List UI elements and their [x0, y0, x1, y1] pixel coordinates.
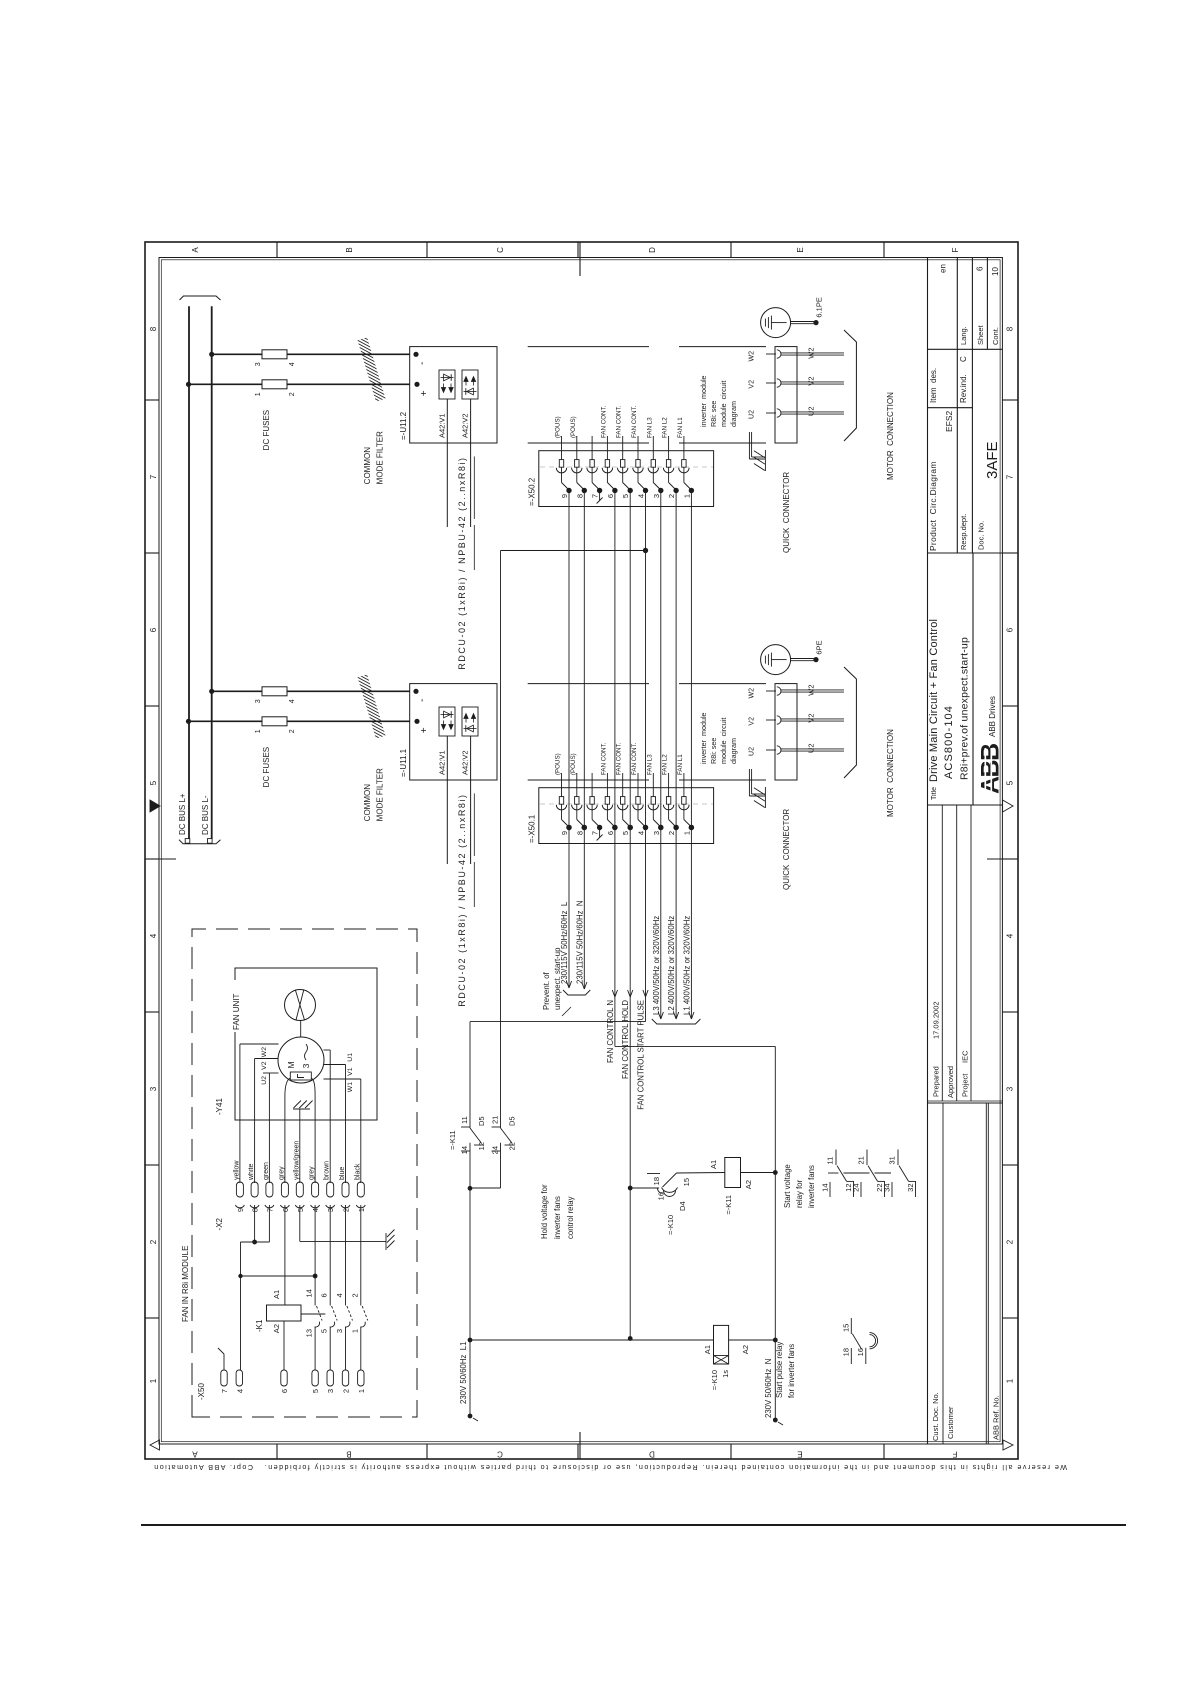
svg-text:7: 7 — [220, 1389, 229, 1393]
K11 coil — [725, 1158, 741, 1188]
svg-text:6: 6 — [149, 627, 158, 632]
svg-text:D5: D5 — [508, 1116, 517, 1126]
svg-text:8: 8 — [575, 494, 584, 498]
X50.2 pin 7 — [591, 436, 593, 460]
X50.1 pin 5 — [622, 773, 624, 797]
svg-text:QUICK CONNECTOR: QUICK CONNECTOR — [782, 472, 791, 553]
K10 coil (timer 1s) — [714, 1325, 729, 1364]
svg-text:4: 4 — [1006, 933, 1015, 938]
thermal wire to X2-6 — [285, 1078, 290, 1183]
bus wire FAN L2 (pin2) — [675, 491, 677, 1020]
svg-text:7: 7 — [591, 831, 600, 835]
X50.2 pin 6 — [606, 436, 608, 460]
fan blades symbol — [285, 990, 316, 1021]
wire X2-7 green to junction — [268, 1205, 270, 1242]
svg-text:4: 4 — [637, 494, 646, 498]
svg-text:A42:V2: A42:V2 — [461, 750, 470, 775]
svg-text:230V 50/60Hz N: 230V 50/60Hz N — [764, 1359, 773, 1418]
svg-text:4: 4 — [637, 831, 646, 835]
svg-text:COMMON: COMMON — [363, 447, 372, 485]
X50.2 pin 8 — [576, 436, 578, 460]
X50.2 pin 9 — [561, 436, 563, 460]
svg-text:FAN CONTROL N: FAN CONTROL N — [606, 1000, 615, 1063]
motor connection bracket U11.1 — [844, 667, 856, 778]
PE wire to 6.1PE — [791, 323, 815, 325]
end dot N rail — [773, 1418, 778, 1423]
svg-text:C: C — [959, 356, 968, 362]
svg-text:Drive Main Circuit + Fan Contr: Drive Main Circuit + Fan Control — [928, 619, 940, 782]
wire K10 A2 to N rail — [729, 1339, 776, 1341]
K1 contact 3/4 on wire y=345.5 — [345, 1327, 347, 1371]
contact reference ladder line — [828, 1172, 839, 1174]
svg-text:D4: D4 — [678, 1201, 687, 1211]
svg-text:Start pulse relay: Start pulse relay — [775, 1342, 784, 1398]
X50.1 pin 7 — [591, 773, 593, 797]
svg-text:230/115V 50Hz/60Hz N: 230/115V 50Hz/60Hz N — [575, 900, 584, 984]
svg-text:FAN CONT.: FAN CONT. — [600, 405, 607, 438]
svg-text:relay for: relay for — [795, 1179, 804, 1208]
svg-text:A2: A2 — [272, 1324, 281, 1333]
X2-5 wire left and PE drop — [299, 1205, 301, 1241]
-X50 pin 5 — [312, 1370, 318, 1386]
svg-text:DC BUS L+: DC BUS L+ — [178, 793, 187, 835]
zone ticks left/right bands — [276, 1444, 278, 1459]
K11 contact 21/24 blade — [501, 1128, 512, 1143]
DC fuse 3-4 U11.1 — [262, 687, 287, 696]
svg-text:E: E — [797, 1450, 802, 1459]
svg-text:FAN L1: FAN L1 — [677, 417, 684, 438]
svg-text:10: 10 — [991, 267, 1000, 276]
wire 15 to K11 coil — [677, 1172, 725, 1175]
svg-text:V2: V2 — [807, 377, 816, 386]
centre mark bottom — [987, 858, 1018, 860]
terminal - U11.1 — [413, 689, 418, 694]
svg-text:=-U11.2: =-U11.2 — [399, 411, 408, 440]
fold mark triangle top centre (solid) — [150, 800, 160, 812]
svg-text:5: 5 — [311, 1389, 320, 1393]
underline (2..nxR8i) — [473, 456, 475, 519]
-X50 pin 3 — [327, 1370, 333, 1386]
terminal 18 stub — [647, 1173, 660, 1175]
X50.1 pin 8 — [576, 773, 578, 797]
X50.2 pin 3 — [652, 436, 654, 460]
N drop from FAN CONTROL N — [615, 1045, 775, 1047]
wire X2-9 yellow right side — [239, 1044, 241, 1183]
wire L1 out — [469, 1188, 471, 1416]
svg-text:F: F — [952, 1450, 957, 1459]
svg-text:DC FUSES: DC FUSES — [262, 747, 271, 787]
bus wire 230/115V N (pin8) — [583, 491, 585, 990]
DC bus rail L- — [211, 306, 213, 839]
blade — [663, 1173, 677, 1187]
svg-text:4: 4 — [289, 699, 296, 703]
bus wire FAN L3 (pin3) — [660, 491, 662, 1020]
svg-text:EFS2: EFS2 — [944, 410, 954, 432]
X2-3 brown to U1 — [329, 1050, 331, 1183]
svg-text:FAN CONT.: FAN CONT. — [616, 405, 623, 438]
continuation arrow 230/115V L — [566, 981, 571, 988]
wire A42:V1 stub U11.2 — [446, 399, 448, 527]
svg-text:W1: W1 — [347, 1082, 354, 1092]
stub W1 — [324, 1078, 361, 1080]
svg-text:7: 7 — [1006, 474, 1015, 479]
svg-text:FAN L2: FAN L2 — [662, 417, 669, 438]
X50.1 pin 3 — [652, 773, 654, 797]
svg-text:2: 2 — [667, 831, 676, 835]
bus wire FAN CONTROL HOLD (pin5) — [629, 491, 631, 1339]
svg-text:Rev.ind.: Rev.ind. — [959, 374, 968, 403]
svg-text:7: 7 — [149, 474, 158, 479]
prepared section row lines — [941, 805, 943, 1101]
fuse branch wires U11.2 — [212, 353, 410, 355]
svg-text:U2: U2 — [749, 747, 756, 756]
riser x=662.4 (start pulse to L1 wire) — [470, 1021, 646, 1023]
terminal + U11.2 — [414, 382, 419, 387]
svg-text:17.09.2002: 17.09.2002 — [932, 1001, 941, 1039]
motor connection bracket U11.2 — [844, 330, 856, 441]
junction HOLD to riser — [628, 1336, 633, 1341]
svg-text:Item des.: Item des. — [929, 368, 938, 403]
svg-text:+: + — [419, 390, 430, 396]
-X2 terminal 5 — [296, 1182, 303, 1197]
svg-text:Resp.dept.: Resp.dept. — [959, 514, 968, 550]
svg-text:7: 7 — [591, 494, 600, 498]
svg-text:Sheet: Sheet — [976, 324, 985, 345]
riser x=345.5 from L1 wire to K10 coil — [468, 1338, 473, 1343]
fan motor circle M 3~ — [278, 1037, 324, 1083]
svg-text:3: 3 — [1006, 1086, 1015, 1091]
X2-2 blue to V1 — [345, 1065, 347, 1184]
-X2 terminal 8 — [251, 1182, 258, 1197]
tilde — [305, 1044, 308, 1060]
svg-text:C: C — [496, 247, 505, 253]
leader line prevent — [562, 1007, 571, 1016]
svg-text:2: 2 — [289, 392, 296, 396]
DC fuse 1-2 U11.1 — [262, 717, 287, 726]
svg-text:6: 6 — [280, 1389, 289, 1393]
svg-text:Cont.: Cont. — [991, 327, 1000, 345]
PE wire to 6PE — [791, 660, 815, 662]
-X2 terminal 3 — [327, 1182, 334, 1197]
svg-text:black: black — [354, 1163, 361, 1180]
svg-text:grey: grey — [309, 1166, 316, 1180]
-X50 pin 1 — [358, 1370, 364, 1386]
svg-text:FAN CONTROL HOLD: FAN CONTROL HOLD — [621, 1000, 630, 1079]
-X2 terminal 1 — [357, 1182, 364, 1197]
inverter module enclosure edges U11.2 — [528, 442, 649, 444]
svg-text:A42:V2: A42:V2 — [461, 413, 470, 438]
A42:V1 diode box U11.1 — [439, 707, 455, 736]
svg-text:FAN IN R8i MODULE: FAN IN R8i MODULE — [181, 1246, 190, 1322]
quick connector pin U2 — [766, 749, 776, 751]
svg-text:yellow/green: yellow/green — [293, 1141, 300, 1180]
quick connector pin W2 — [766, 353, 776, 355]
underline (2..nxR8i) — [473, 793, 475, 856]
svg-text:-K1: -K1 — [255, 1319, 264, 1332]
X50.1 pin 7 unused stub — [599, 828, 601, 838]
svg-text:3: 3 — [255, 699, 262, 703]
svg-text:B: B — [345, 247, 354, 252]
X2-1 black to W1 — [360, 1079, 362, 1183]
svg-text:MOTOR CONNECTION: MOTOR CONNECTION — [886, 392, 895, 480]
common mode filter hatched bar U11.1 — [358, 674, 386, 738]
svg-text:7: 7 — [265, 1208, 274, 1212]
svg-text:A1: A1 — [703, 1345, 712, 1354]
svg-text:1: 1 — [149, 1378, 158, 1383]
svg-text:12: 12 — [477, 1142, 486, 1150]
svg-text:W2: W2 — [807, 685, 816, 696]
svg-text:U2: U2 — [807, 407, 816, 417]
DC bus end bracket left — [179, 840, 221, 844]
connector separation dashed line X50.1 — [540, 803, 713, 805]
svg-text:=-K11: =-K11 — [724, 1195, 733, 1215]
svg-text:6: 6 — [1006, 627, 1015, 632]
svg-text:A1: A1 — [709, 1160, 718, 1169]
svg-text:15: 15 — [682, 1178, 691, 1186]
svg-text:U2: U2 — [749, 410, 756, 419]
wire A42:V2 stub U11.2 — [470, 399, 472, 527]
X50.1 pin 2 — [668, 773, 670, 797]
svg-text:Hold voltage for: Hold voltage for — [540, 1184, 549, 1239]
svg-text:B: B — [346, 1450, 351, 1459]
quick connector pin V2 — [766, 719, 776, 721]
svg-text:-X2: -X2 — [215, 1217, 224, 1230]
svg-text:3: 3 — [301, 1063, 311, 1068]
fan unit solid box — [235, 968, 377, 1120]
protective earth circle U11.1 — [761, 645, 791, 675]
svg-text:inverter fans: inverter fans — [553, 1196, 562, 1239]
riser start-pulse to contact wire (x=1133.5) — [501, 550, 646, 552]
svg-text:-Y41: -Y41 — [215, 1098, 224, 1115]
-X50 pin 2 — [342, 1370, 348, 1386]
DC bus end bracket right — [180, 296, 221, 300]
svg-text:COMMON: COMMON — [363, 784, 372, 822]
thermal wire to X2-4 — [311, 1078, 315, 1183]
K11 contact 11/14 blade — [470, 1128, 481, 1143]
wire X50-6 to K1 coil — [283, 1321, 285, 1370]
svg-text:2: 2 — [350, 1293, 359, 1297]
bus wire FAN L1 (pin1) — [690, 491, 692, 1020]
svg-text:A1: A1 — [272, 1290, 281, 1299]
quick connector box U11.2 — [775, 347, 797, 443]
page footer rule — [141, 1524, 1126, 1526]
svg-text:1: 1 — [255, 729, 262, 733]
svg-text:5: 5 — [149, 780, 158, 785]
title block row line customer/abbref 1 — [985, 1103, 987, 1444]
K1 contact 5/6 on wire y=330.2 — [329, 1327, 331, 1371]
svg-text:U1: U1 — [347, 1053, 354, 1062]
title block outline — [927, 258, 929, 1445]
stub U2 — [263, 1072, 279, 1074]
svg-text:=-X50.1: =-X50.1 — [528, 814, 537, 843]
A42:V1 diode box U11.2 — [439, 370, 455, 399]
svg-text:inverter module: inverter module — [699, 712, 708, 764]
svg-text:15: 15 — [842, 1324, 851, 1332]
svg-text:U2: U2 — [807, 744, 816, 754]
svg-text:6PE: 6PE — [815, 640, 824, 654]
end arrow FAN L2 — [674, 1012, 679, 1019]
svg-text:D5: D5 — [477, 1116, 486, 1126]
-X50 pin 7 — [221, 1370, 227, 1386]
svg-text:Project: Project — [961, 1073, 970, 1097]
A42:V2 diode box U11.1 — [462, 707, 478, 736]
svg-text:=-K10: =-K10 — [666, 1215, 675, 1235]
bus wire FAN CONTROL N (pin6) — [614, 491, 616, 1047]
svg-text:Title: Title — [931, 787, 938, 800]
FAN IN R8i MODULE dashed box — [192, 929, 417, 1417]
svg-text:6: 6 — [281, 1208, 290, 1212]
svg-text:9: 9 — [236, 1208, 245, 1212]
svg-text:FAN CONT.: FAN CONT. — [631, 742, 638, 775]
svg-text:Start voltage: Start voltage — [783, 1164, 792, 1208]
X50.2 pin 2 — [668, 436, 670, 460]
svg-text:3: 3 — [326, 1389, 335, 1393]
drawing frame inner border — [159, 258, 1002, 1445]
svg-text:2: 2 — [342, 1208, 351, 1212]
protective earth circle U11.2 — [761, 308, 791, 338]
X50.2 pin 1 — [683, 436, 685, 460]
centre mark right — [579, 242, 581, 276]
title block row line cust — [942, 1103, 944, 1444]
svg-text:RDCU-02 (1xR8i) / NPBU-42 (2..: RDCU-02 (1xR8i) / NPBU-42 (2..nxR8i) — [457, 456, 467, 669]
-X50 pin 6 — [281, 1370, 287, 1386]
svg-text:2: 2 — [289, 729, 296, 733]
common mode filter hatched bar U11.2 — [358, 337, 386, 401]
N rail 230V 50/60Hz N — [774, 1046, 776, 1420]
centre mark top — [145, 858, 176, 860]
svg-text:R8i: see: R8i: see — [709, 738, 718, 764]
svg-text:1: 1 — [350, 1329, 359, 1333]
shaft fan-motor — [300, 1021, 302, 1038]
svg-text:MODE FILTER: MODE FILTER — [376, 431, 385, 484]
svg-text:A: A — [192, 1450, 198, 1459]
svg-text:14: 14 — [305, 1289, 314, 1297]
DC bus rail L+ — [188, 306, 190, 839]
svg-text:grey: grey — [278, 1166, 285, 1180]
svg-text:3: 3 — [652, 831, 661, 835]
quick connector pin W2 — [766, 690, 776, 692]
svg-text:W2: W2 — [261, 1047, 268, 1057]
svg-text:Product Circ.Diagram: Product Circ.Diagram — [928, 461, 938, 551]
K1 contact 1/2 on wire y=360.8 — [360, 1327, 362, 1371]
svg-text:RDCU-02 (1xR8i) / NPBU-42 (2..: RDCU-02 (1xR8i) / NPBU-42 (2..nxR8i) — [457, 793, 467, 1006]
svg-text:13: 13 — [305, 1329, 314, 1337]
svg-text:2: 2 — [149, 1239, 158, 1244]
fold mark triangle top left — [150, 1440, 160, 1450]
svg-text:C: C — [497, 1450, 503, 1459]
-X2 terminal 6 — [281, 1182, 288, 1197]
svg-text:8: 8 — [575, 831, 584, 835]
svg-text:1: 1 — [1006, 1378, 1015, 1383]
svg-text:F: F — [951, 247, 960, 252]
svg-text:1: 1 — [682, 494, 691, 498]
svg-text:3: 3 — [326, 1208, 335, 1212]
junction dots on DC bus (U11.1) — [209, 689, 214, 694]
stub W2 — [240, 1043, 279, 1045]
svg-text:24: 24 — [852, 1184, 861, 1192]
X50.2 pin 7 unused stub — [599, 491, 601, 501]
svg-text:18: 18 — [652, 1177, 661, 1185]
svg-text:A2: A2 — [741, 1345, 750, 1354]
wire A42:V1 stub U11.1 — [446, 736, 448, 864]
svg-text:We reserve all rights in this: We reserve all rights in this document a… — [153, 1463, 1067, 1472]
svg-text:1: 1 — [357, 1208, 366, 1212]
svg-text:11: 11 — [460, 1116, 469, 1124]
terminal - U11.2 — [413, 352, 418, 357]
junction dot L1/B — [468, 1186, 473, 1191]
title block vertical dividers — [928, 1102, 1003, 1104]
svg-text:white: white — [248, 1164, 255, 1181]
svg-text:18: 18 — [842, 1348, 851, 1356]
svg-text:14: 14 — [821, 1184, 830, 1192]
X2-5 yellow/green to PE symbol near motor — [299, 1109, 301, 1183]
svg-text:6: 6 — [976, 266, 985, 271]
-X2 terminal 7 — [266, 1182, 273, 1197]
svg-text:V2: V2 — [749, 380, 756, 389]
svg-text:L1 400V/50Hz or 320V/60Hz: L1 400V/50Hz or 320V/60Hz — [682, 916, 691, 1015]
svg-text:1s: 1s — [721, 1370, 730, 1378]
svg-text:4: 4 — [235, 1389, 244, 1393]
svg-text:5: 5 — [621, 831, 630, 835]
zone ticks top/bottom bands — [145, 1317, 159, 1319]
svg-text:Lang.: Lang. — [959, 326, 968, 345]
svg-text:(POUS): (POUS) — [555, 753, 562, 775]
junction white/green — [252, 1240, 257, 1245]
svg-text:+: + — [419, 727, 430, 733]
wire contact to junction — [469, 1143, 471, 1189]
svg-text:U2: U2 — [261, 1076, 268, 1085]
svg-text:3: 3 — [149, 1086, 158, 1091]
svg-text:V2: V2 — [749, 717, 756, 726]
svg-text:L3 400V/50Hz or 320V/60Hz: L3 400V/50Hz or 320V/60Hz — [652, 916, 661, 1015]
svg-text:ABB Ref. No.: ABB Ref. No. — [992, 1395, 1001, 1440]
PE slashes near quick connector U11.1 — [748, 769, 750, 796]
svg-text:en: en — [939, 264, 948, 273]
svg-text:yellow: yellow — [233, 1160, 240, 1180]
X50.1 pin 6 — [606, 773, 608, 797]
stub V1 — [324, 1064, 346, 1066]
svg-text:FAN CONT.: FAN CONT. — [616, 742, 623, 775]
quick connector pin U2 — [766, 412, 776, 414]
wire A42:V2 stub U11.1 — [470, 736, 472, 864]
X2-8 to V2 — [254, 1059, 256, 1184]
svg-text:34: 34 — [883, 1184, 892, 1192]
L1 wire y=470 left of corner — [469, 1022, 471, 1128]
svg-text:1: 1 — [357, 1389, 366, 1393]
svg-text:5: 5 — [621, 494, 630, 498]
svg-text:blue: blue — [339, 1167, 346, 1180]
svg-text:=-U11.1: =-U11.1 — [399, 748, 408, 777]
svg-text:R8i+prev.of unexpect.start-up: R8i+prev.of unexpect.start-up — [959, 637, 971, 780]
wire B (to K11 contact 21/24) y=500.5 — [500, 551, 502, 1129]
elbow B to L1 junction — [470, 1187, 501, 1189]
svg-text:MODE FILTER: MODE FILTER — [376, 768, 385, 821]
X2-7 to U2 — [268, 1073, 270, 1183]
connector box =-X50.2 — [539, 451, 714, 507]
svg-text:ABB Drives: ABB Drives — [988, 696, 997, 737]
svg-text:14: 14 — [460, 1146, 469, 1154]
svg-text:A2: A2 — [744, 1180, 753, 1189]
svg-text:FAN UNIT: FAN UNIT — [232, 993, 241, 1030]
svg-text:3: 3 — [255, 362, 262, 366]
svg-text:FAN L2: FAN L2 — [662, 754, 669, 775]
svg-text:brown: brown — [324, 1161, 331, 1180]
svg-text:32: 32 — [906, 1184, 915, 1192]
-X50 pin 4 — [236, 1370, 242, 1386]
svg-text:FAN L3: FAN L3 — [646, 754, 653, 775]
-X2 terminal 4 — [312, 1182, 319, 1197]
svg-text:E: E — [796, 247, 805, 252]
